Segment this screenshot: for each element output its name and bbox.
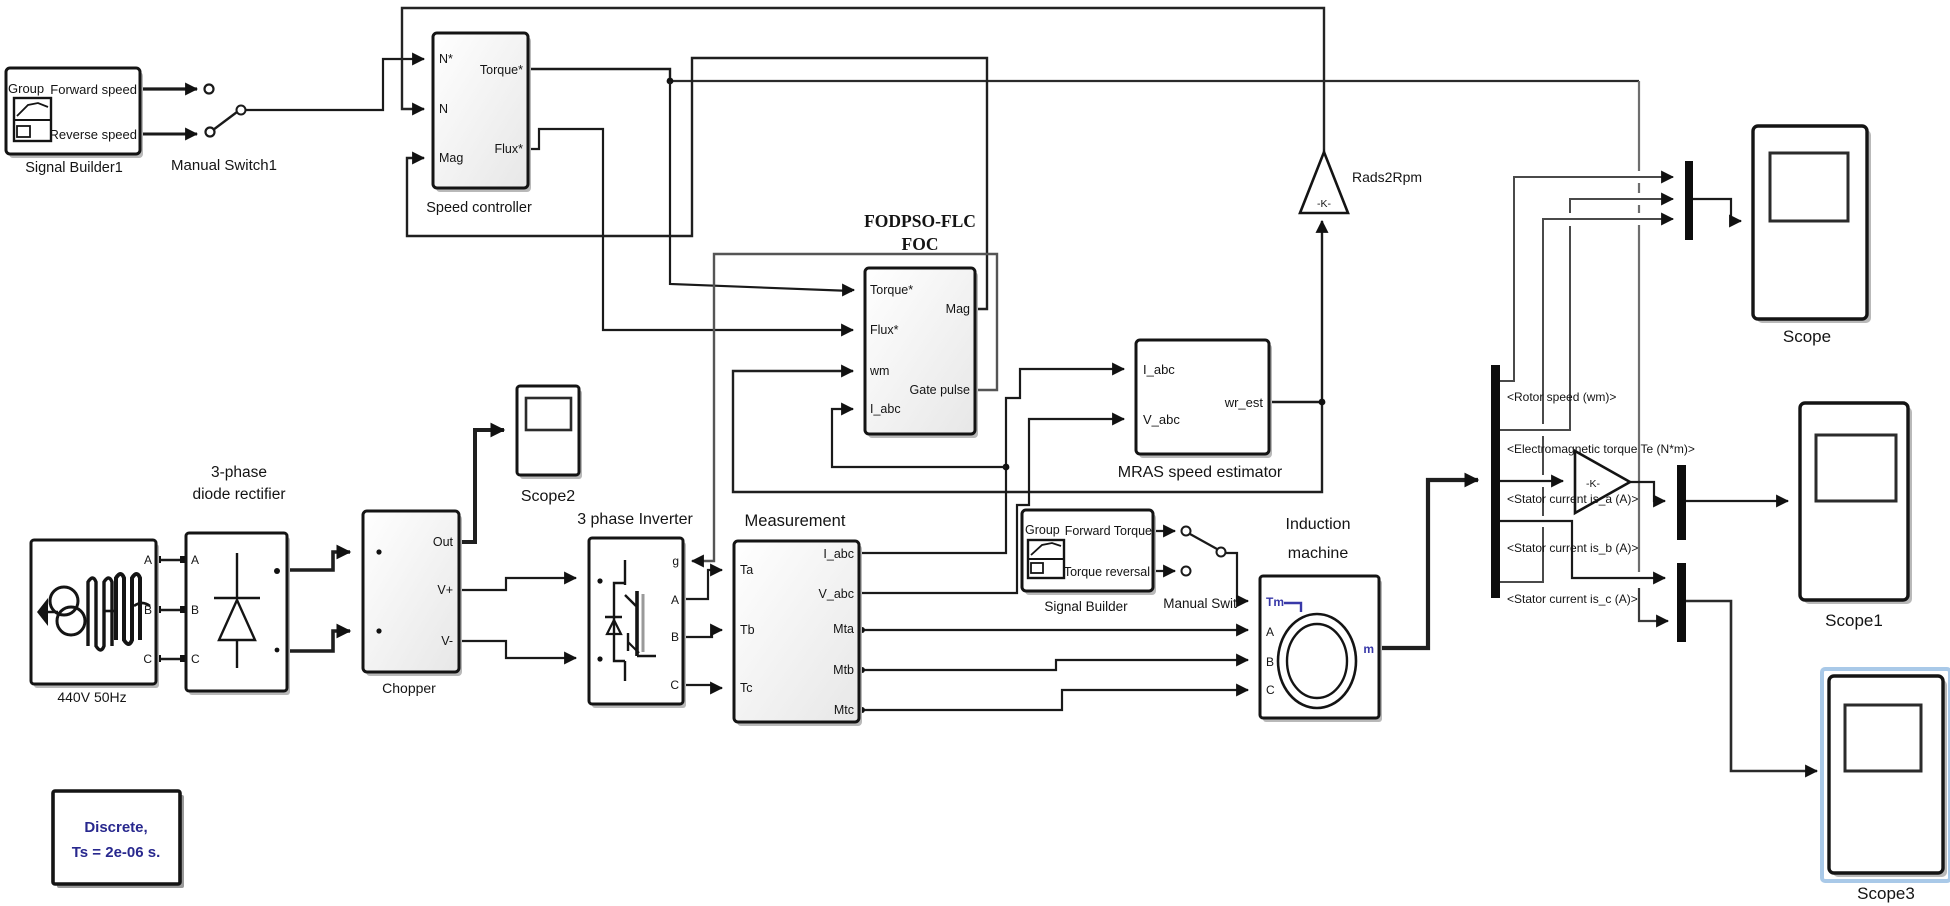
svg-text:B: B (1266, 655, 1274, 669)
svg-text:machine: machine (1288, 545, 1349, 562)
svg-text:Flux*: Flux* (870, 323, 899, 337)
svg-text:m: m (1363, 642, 1374, 656)
label Discrete text (72, 819, 161, 861)
svg-text:<Rotor speed (wm)>: <Rotor speed (wm)> (1507, 390, 1616, 404)
svg-text:Forward speed: Forward speed (50, 82, 137, 97)
wire Bus Selector Rotor speed to mux1 input1 (1500, 177, 1673, 381)
block Scope2 (517, 386, 582, 479)
gain -K- triangle before mux2 (1575, 451, 1630, 513)
svg-text:I_abc: I_abc (870, 402, 901, 416)
block Chopper (363, 511, 462, 676)
svg-text:Scope2: Scope2 (521, 488, 575, 505)
svg-text:A: A (671, 593, 679, 607)
block Signal Builder (torque) (1022, 510, 1156, 595)
label Chopper ports (433, 535, 454, 648)
svg-text:V_abc: V_abc (1143, 412, 1180, 427)
wire Chopper V- to inverter (459, 641, 576, 658)
source symbol AC with inductors (37, 574, 150, 650)
svg-text:FOC: FOC (902, 234, 939, 254)
svg-text:C: C (143, 652, 152, 666)
switch lever Manual Switch1 (213, 106, 246, 131)
junction wr_est (1319, 399, 1326, 406)
svg-text:A: A (1266, 625, 1274, 639)
label inverter ports (670, 554, 679, 692)
svg-text:Group: Group (1025, 523, 1060, 537)
svg-text:Mag: Mag (946, 302, 970, 316)
label rectifier ports (191, 553, 200, 666)
svg-text:Discrete,: Discrete, (84, 819, 147, 836)
svg-text:I_abc: I_abc (823, 547, 854, 561)
label Speed controller ports (439, 52, 523, 165)
wire Speed controller Flux* to FOC Flux* (528, 129, 853, 330)
wire Bus Selector stator current c to mux1 input3 (1500, 219, 1673, 582)
svg-text:Measurement: Measurement (745, 512, 846, 530)
motor circles inside induction machine (1278, 603, 1356, 708)
wire inverter A to Measurement Ta (683, 570, 722, 599)
wire Measurement Mta to Induction machine A (859, 627, 1248, 633)
wire Manual Switch1 to Speed controller N* (246, 59, 424, 110)
label FOC ports (869, 283, 970, 416)
mux1 bar before Scope (1685, 161, 1693, 240)
svg-text:Mtb: Mtb (833, 663, 854, 677)
wire wr_est down and left to FOC wm input (733, 371, 1322, 492)
block 3-phase diode rectifier (186, 533, 290, 695)
label MRAS ports (1143, 362, 1263, 427)
svg-text:Forward Torque: Forward Torque (1065, 524, 1152, 538)
wire source A to rectifier A (154, 556, 187, 563)
wire Chopper V+ to inverter (459, 578, 576, 590)
mux3 bar before Scope3 (1677, 563, 1686, 642)
block Scope1 (1800, 403, 1912, 604)
svg-text:Induction: Induction (1286, 516, 1351, 533)
svg-text:g: g (672, 554, 679, 568)
svg-text:Gate pulse: Gate pulse (910, 383, 971, 397)
wire inverter B to Measurement Tb (683, 630, 722, 637)
wire Manual Switch to Induction machine Tm (1226, 553, 1248, 601)
svg-text:3 phase Inverter: 3 phase Inverter (577, 511, 693, 528)
svg-text:wm: wm (869, 364, 889, 378)
svg-text:N*: N* (439, 52, 453, 66)
svg-text:Out: Out (433, 535, 454, 549)
block FODPSO-FLC FOC (865, 268, 978, 438)
svg-text:I_abc: I_abc (1143, 362, 1175, 377)
block 440V 50Hz source (31, 540, 159, 688)
svg-text:Tc: Tc (740, 681, 753, 695)
wire Measurement Mtb to Induction machine B (859, 660, 1248, 673)
svg-text:Torque*: Torque* (870, 283, 913, 297)
svg-text:B: B (671, 630, 679, 644)
svg-text:Scope1: Scope1 (1825, 611, 1883, 630)
block MRAS speed estimator (1136, 340, 1272, 458)
wire FOC Mag feedback to Speed controller Mag (407, 58, 987, 309)
svg-text:B: B (144, 603, 152, 617)
label Measurement ports (740, 547, 854, 717)
svg-text:Tb: Tb (740, 623, 755, 637)
svg-text:FODPSO-FLC: FODPSO-FLC (864, 211, 976, 231)
svg-text:Signal Builder: Signal Builder (1044, 599, 1128, 614)
svg-text:Manual Switch1: Manual Switch1 (171, 157, 277, 174)
wire Rads2Rpm output feedback to Speed controller N (402, 8, 1324, 152)
svg-text:440V 50Hz: 440V 50Hz (57, 689, 126, 705)
svg-text:Mtc: Mtc (834, 703, 854, 717)
svg-text:<Stator current is_b (A)>: <Stator current is_b (A)> (1507, 541, 1638, 555)
svg-text:Group: Group (8, 81, 44, 96)
wire Bus Selector stator current b to mux3 input1 (1500, 521, 1665, 578)
svg-text:C: C (1266, 683, 1275, 697)
svg-text:Reverse speed: Reverse speed (50, 127, 137, 142)
wire rectifier output minus to Chopper (287, 631, 350, 651)
block Signal Builder1 (6, 68, 143, 158)
wire wr_est up to Rads2Rpm input (1321, 221, 1323, 402)
svg-text:Torque*: Torque* (480, 63, 523, 77)
wire Chopper Out to Scope2 (459, 430, 504, 542)
svg-text:V_abc: V_abc (819, 587, 854, 601)
svg-text:<Electromagnetic torque Te (N*: <Electromagnetic torque Te (N*m)> (1507, 442, 1695, 456)
block 3 phase Inverter (589, 538, 686, 708)
svg-text:Chopper: Chopper (382, 680, 436, 696)
block Induction machine (1260, 576, 1382, 722)
signal thumbnail Signal Builder1 (14, 98, 51, 141)
label Induction machine ports (1266, 595, 1374, 697)
switch lever Manual Switch (1190, 534, 1226, 557)
junction Torque* branch (667, 78, 674, 85)
wire Measurement I_abc to MRAS I_abc (859, 369, 1124, 553)
svg-text:<Stator current is_a (A)>: <Stator current is_a (A)> (1507, 492, 1638, 506)
mux2 bar before Scope1 (1677, 465, 1686, 540)
selection highlight Scope3 (1822, 669, 1950, 881)
svg-text:C: C (670, 678, 679, 692)
wire Measurement Mtc to Induction machine C (859, 690, 1248, 713)
svg-text:Ts = 2e-06 s.: Ts = 2e-06 s. (72, 844, 161, 861)
wire Speed controller Torque* output (528, 69, 670, 81)
svg-text:Speed controller: Speed controller (426, 200, 532, 216)
wire Signal Builder Torque reversal output (1153, 567, 1191, 576)
svg-text:N: N (439, 102, 448, 116)
block Scope (1753, 126, 1871, 323)
svg-text:Scope3: Scope3 (1857, 884, 1915, 903)
wire Bus Selector stator current a to gain (1500, 480, 1563, 482)
svg-text:A: A (144, 553, 152, 567)
wire Induction machine m output bus to Bus Selector (1379, 480, 1478, 648)
svg-text:Ta: Ta (740, 563, 753, 577)
gain Rads2Rpm triangle (1300, 152, 1348, 213)
wire Bus Selector torque Te to mux1 input2 (1500, 199, 1673, 430)
svg-text:Rads2Rpm: Rads2Rpm (1352, 169, 1422, 185)
svg-text:V+: V+ (437, 583, 453, 597)
block Scope3 (1829, 676, 1947, 877)
wire mux2 output to Scope1 (1686, 500, 1788, 502)
wire Torque* feedforward long horizontal (670, 80, 1639, 82)
wire MRAS wr_est output (1269, 401, 1322, 403)
caption 3-phase diode rectifier (192, 464, 285, 503)
svg-text:MRAS speed estimator: MRAS speed estimator (1118, 464, 1283, 481)
bus selector bar (1491, 365, 1500, 598)
svg-text:Torque reversal: Torque reversal (1064, 565, 1150, 579)
label source ports (143, 553, 152, 666)
wire mux1 output to Scope (1693, 199, 1741, 221)
svg-text:Scope: Scope (1783, 327, 1831, 346)
block Speed controller (433, 33, 531, 192)
label Signal Builder torque inner texts (1025, 523, 1152, 579)
wire Torque* branch down to FODPSO FOC input (670, 81, 854, 291)
svg-text:-K-: -K- (1317, 198, 1332, 210)
signal thumbnail Signal Builder torque (1028, 540, 1064, 578)
wire Signal Builder Forward Torque output (1153, 527, 1191, 536)
wire I_abc branch to FOC I_abc input (832, 409, 1006, 467)
title FODPSO-FLC FOC (864, 211, 976, 254)
label Signal Builder1 inner texts (8, 81, 137, 142)
svg-text:<Stator current is_c (A)>: <Stator current is_c (A)> (1507, 592, 1638, 606)
wire rectifier output plus to Chopper (287, 552, 350, 570)
wire source B to rectifier B (154, 606, 187, 613)
wire source C to rectifier C (154, 655, 187, 662)
svg-text:C: C (191, 652, 200, 666)
IGBT symbols inside inverter (605, 560, 656, 681)
svg-text:Mag: Mag (439, 151, 463, 165)
wire Signal Builder1 Forward speed output (140, 85, 214, 94)
svg-text:B: B (191, 603, 199, 617)
svg-text:A: A (191, 553, 199, 567)
svg-text:Flux*: Flux* (495, 142, 524, 156)
wire Measurement V_abc to MRAS V_abc (859, 419, 1124, 593)
caption Induction machine (1286, 516, 1351, 562)
svg-text:Manual Swit: Manual Swit (1163, 596, 1237, 611)
diode symbol inside rectifier (214, 553, 280, 668)
wire inverter C to Measurement Tc (683, 685, 722, 688)
wire Signal Builder1 Reverse speed output (140, 128, 215, 137)
svg-text:-K-: -K- (1586, 478, 1601, 490)
wire gain output to mux2 (1630, 482, 1665, 501)
svg-text:diode rectifier: diode rectifier (192, 486, 285, 503)
wire FOC Gate pulse to inverter g (692, 254, 997, 561)
wire Torque* long vertical to mux3 (1639, 81, 1668, 621)
wire mux3 output to Scope3 (1686, 601, 1817, 771)
svg-text:V-: V- (441, 634, 453, 648)
block Discrete sample time (53, 791, 184, 888)
svg-text:Signal Builder1: Signal Builder1 (25, 160, 123, 176)
svg-text:wr_est: wr_est (1224, 395, 1264, 410)
svg-text:Tm: Tm (1266, 595, 1284, 609)
junction I_abc branch (1003, 464, 1010, 471)
svg-text:Mta: Mta (833, 622, 854, 636)
block Measurement (734, 541, 862, 726)
svg-text:3-phase: 3-phase (211, 464, 267, 481)
